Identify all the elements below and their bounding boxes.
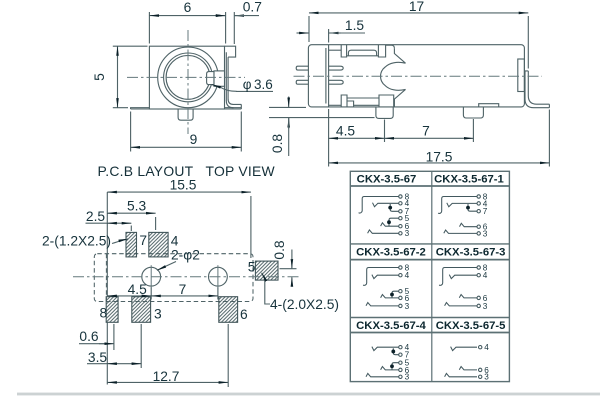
- side bottom bump: [479, 104, 499, 107]
- dim 9 (front bottom): [131, 112, 242, 152]
- side right plate: [518, 59, 525, 92]
- pad 8: [106, 297, 118, 323]
- dim 5.3: [107, 213, 155, 230]
- dim 17 (side top): [309, 13, 528, 69]
- svg-text:5: 5: [92, 73, 107, 81]
- svg-text:4: 4: [483, 271, 488, 280]
- pad 5: [255, 261, 278, 280]
- side top spring bridge: [348, 50, 376, 56]
- table column divider: [431, 171, 433, 381]
- side bottom spring step: [347, 101, 354, 107]
- schematic CKX-3.5-67-4: [366, 343, 410, 382]
- svg-text:17: 17: [409, 0, 424, 14]
- dim 4.5 (side bottom): [329, 109, 385, 142]
- side top spring under line: [347, 55, 379, 57]
- svg-text:CKX-3.5-67-2: CKX-3.5-67-2: [356, 247, 426, 259]
- side top spring left segment: [329, 49, 342, 51]
- front nub outer: [214, 71, 225, 86]
- label 2-(1.2X2.5) with leader: [112, 239, 128, 244]
- front left flange: [131, 108, 150, 109]
- svg-text:CKX-3.5-67-1: CKX-3.5-67-1: [434, 174, 504, 186]
- svg-text:6: 6: [184, 0, 192, 15]
- schematic CKX-3.5-67: [359, 192, 410, 238]
- front bottom line: [131, 108, 242, 110]
- svg-text:2-(1.2X2.5): 2-(1.2X2.5): [42, 233, 111, 248]
- dim 7 (side bottom): [385, 119, 474, 142]
- svg-text:4-(2.0X2.5): 4-(2.0X2.5): [270, 297, 339, 312]
- front right flange: [225, 104, 242, 109]
- schematic CKX-3.5-67-1: [438, 192, 488, 238]
- front outer circle: [158, 47, 219, 108]
- side top contact cap: [386, 45, 395, 48]
- dim 4.5 pcb: [107, 288, 151, 300]
- svg-text:17.5: 17.5: [426, 149, 453, 164]
- svg-text:TOP VIEW: TOP VIEW: [206, 163, 276, 179]
- schematic CKX-3.5-67-5: [445, 343, 490, 382]
- dim 12.7: [107, 324, 228, 387]
- svg-text:7: 7: [422, 124, 430, 139]
- side center contact: [381, 48, 406, 107]
- dim 0.8 (side left): [269, 97, 375, 157]
- pad 7: [126, 232, 137, 257]
- svg-text:3: 3: [484, 373, 489, 382]
- svg-text:6: 6: [240, 307, 248, 322]
- side leaf contact upper: [329, 66, 344, 70]
- side bottom slot tab right: [379, 95, 394, 107]
- svg-text:P.C.B LAYOUT: P.C.B LAYOUT: [98, 163, 194, 179]
- table outer border: [350, 171, 509, 381]
- front bottom tab: [178, 109, 193, 120]
- svg-text:0.8: 0.8: [270, 134, 285, 154]
- side left protruding tab upper: [296, 66, 308, 70]
- side body outline: [308, 45, 524, 107]
- dim 5 (front left): [113, 46, 148, 107]
- svg-text:CKX-3.5-67: CKX-3.5-67: [357, 174, 417, 186]
- side inner left wall: [326, 45, 329, 107]
- front inner circle: [166, 56, 210, 100]
- pcb reference vertical line: [106, 192, 108, 384]
- svg-text:3: 3: [154, 306, 162, 321]
- svg-text:0.6: 0.6: [79, 329, 99, 344]
- side bottom spring left segment: [329, 104, 342, 106]
- front centerline vertical: [187, 30, 189, 134]
- dim 0.8 pcb: [280, 250, 297, 287]
- svg-text:1.5: 1.5: [345, 18, 365, 33]
- side foot 2: [463, 107, 483, 118]
- side left protruding tab lower: [296, 80, 308, 84]
- svg-text:4: 4: [405, 271, 410, 280]
- front nub inner: [207, 72, 214, 85]
- label 2-phi2 with leader: [157, 262, 176, 271]
- table row lines: [350, 185, 509, 187]
- side foot 1: [376, 107, 393, 119]
- svg-text:12.7: 12.7: [153, 369, 180, 384]
- front top-right step: [225, 46, 236, 57]
- pad 6: [219, 297, 238, 323]
- svg-text:7: 7: [139, 233, 147, 248]
- dim 3.5: [87, 324, 141, 368]
- svg-text:7: 7: [179, 282, 187, 297]
- dim 6 (front top): [149, 12, 225, 44]
- dim 1.5 (side top left): [297, 29, 366, 43]
- svg-text:5.3: 5.3: [127, 199, 147, 214]
- dim 0.6: [79, 324, 114, 350]
- svg-text:4.5: 4.5: [128, 282, 148, 297]
- side leaf contact lower: [329, 80, 344, 84]
- svg-text:0.7: 0.7: [243, 0, 262, 15]
- side bottom slot tab left: [341, 95, 347, 107]
- dim 7 pcb: [151, 288, 218, 300]
- pcb hole 2: [209, 267, 228, 286]
- svg-text:15.5: 15.5: [170, 178, 197, 193]
- svg-text:8: 8: [100, 306, 108, 321]
- svg-text:3: 3: [483, 229, 488, 238]
- svg-text:2.5: 2.5: [86, 209, 106, 224]
- svg-text:4.5: 4.5: [336, 124, 356, 139]
- svg-text:4: 4: [171, 234, 179, 249]
- front right plate double line: [226, 52, 228, 101]
- svg-text:CKX-3.5-67-5: CKX-3.5-67-5: [436, 320, 506, 332]
- pcb dashed body outline: [94, 254, 253, 302]
- dim 2.5: [86, 223, 132, 231]
- pad 3: [132, 297, 151, 323]
- pad 4: [149, 232, 168, 257]
- svg-text:3.6: 3.6: [254, 77, 273, 92]
- svg-text:CKX-3.5-67-3: CKX-3.5-67-3: [436, 247, 506, 259]
- side L-bracket: [525, 71, 549, 108]
- schematic CKX-3.5-67-2: [363, 263, 410, 310]
- svg-text:3: 3: [405, 302, 410, 311]
- svg-text:0.8: 0.8: [272, 240, 287, 260]
- side top slot tab left: [341, 45, 346, 57]
- pcb hole 1: [142, 267, 161, 286]
- pcb centerline: [73, 276, 301, 278]
- svg-text:3.5: 3.5: [88, 350, 108, 365]
- svg-text:3: 3: [405, 229, 410, 238]
- svg-text:3: 3: [405, 373, 410, 382]
- front right L-foot: [226, 99, 241, 108]
- svg-text:7: 7: [483, 207, 488, 216]
- label phi 3.6 with leader: [212, 85, 274, 92]
- svg-text:3: 3: [483, 302, 488, 311]
- svg-text:5: 5: [248, 260, 256, 275]
- schematic CKX-3.5-67-3: [439, 263, 488, 310]
- svg-text:φ: φ: [243, 77, 252, 92]
- side bottom spring lines: [347, 98, 379, 105]
- front centerline horizontal: [127, 76, 245, 78]
- dim 17.5 (side bottom): [329, 110, 550, 167]
- side centerline: [294, 75, 543, 77]
- front ring circle: [164, 53, 213, 102]
- svg-text:9: 9: [190, 132, 198, 147]
- pcb dashed bushing wall: [105, 254, 107, 302]
- label 4-(2.0X2.5) with leader: [262, 273, 270, 304]
- scan artifact gray band bottom: [17, 393, 600, 396]
- side top slot tab right: [378, 45, 385, 57]
- dim 0.7 (front top right): [217, 12, 259, 44]
- svg-text:2-φ2: 2-φ2: [171, 248, 200, 263]
- svg-text:CKX-3.5-67-4: CKX-3.5-67-4: [356, 320, 426, 332]
- front body outline: [149, 46, 224, 109]
- dim 15.5: [107, 192, 251, 258]
- svg-text:4: 4: [484, 343, 489, 352]
